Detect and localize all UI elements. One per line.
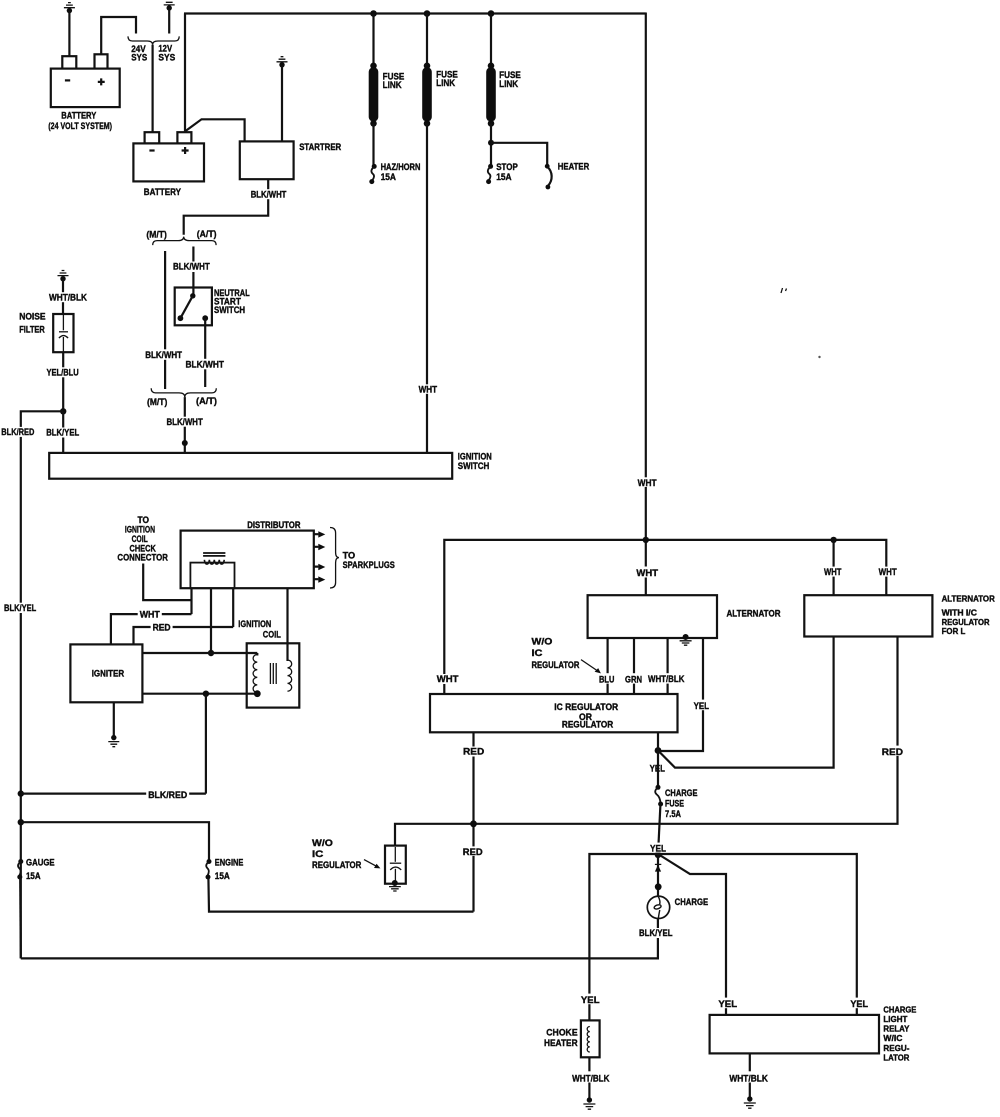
svg-text:ALTERNATOR: ALTERNATOR (942, 595, 995, 604)
svg-text:RELAY: RELAY (883, 1025, 910, 1034)
wire: branch to heater switch (491, 143, 547, 165)
fuse: HAZ/HORN 15A (369, 162, 420, 184)
svg-text:IGNITER: IGNITER (92, 668, 125, 679)
svg-text:(A/T): (A/T) (197, 229, 217, 240)
svg-text:(24 VOLT SYSTEM): (24 VOLT SYSTEM) (48, 121, 112, 132)
svg-text:IC: IC (532, 648, 543, 659)
switch: heater (545, 162, 590, 190)
svg-text:YEL: YEL (850, 999, 868, 1010)
svg-text:WHT: WHT (140, 610, 160, 621)
svg-text:WHT: WHT (879, 567, 897, 578)
arrows: distributor to spark plugs (314, 531, 326, 583)
svg-text:FILTER: FILTER (19, 325, 45, 336)
svg-text:IC: IC (312, 849, 324, 860)
svg-text:7.5A: 7.5A (665, 809, 681, 820)
svg-text:ENGINE: ENGINE (215, 858, 244, 869)
ground G3 (starter) (277, 57, 288, 68)
svg-text:COIL: COIL (263, 629, 281, 640)
svg-text:RED: RED (153, 622, 171, 633)
svg-text:SWITCH: SWITCH (458, 461, 490, 472)
label: WHT alternator 1 feed (634, 567, 659, 580)
noise filter (capacitor) (19, 312, 73, 353)
node: bus junction fuse link 3 (488, 10, 495, 17)
svg-text:BLK/WHT: BLK/WHT (167, 417, 203, 428)
fuse: GAUGE 15A (17, 858, 54, 883)
ground G9 (relay) (744, 1096, 756, 1108)
svg-text:NOISE: NOISE (19, 312, 45, 323)
wire: charge node to relay right input (658, 854, 870, 1015)
wire: gauge line to engine fuse branch (21, 822, 209, 860)
svg-text:RED: RED (463, 847, 483, 858)
node: bus2 junction alternator 1 (643, 537, 649, 543)
svg-text:(M/T): (M/T) (146, 229, 166, 240)
svg-text:15A: 15A (496, 172, 512, 183)
svg-text:DISTRIBUTOR: DISTRIBUTOR (247, 520, 300, 531)
wire: BLK/RED link (21, 789, 206, 801)
svg-text:HEATER: HEATER (544, 1038, 578, 1049)
wire: IC regulator RED output down (461, 732, 486, 911)
wire: FL2 WHT feed down to ignition switch (417, 123, 438, 453)
svg-text:RED: RED (463, 747, 484, 758)
label: W/O IC regulator (upper) with arrow (532, 637, 601, 674)
svg-text:BLK/WHT: BLK/WHT (251, 189, 287, 200)
wire: RED line to igniter (134, 622, 234, 645)
fusible link FL1 (369, 14, 405, 127)
label: W/O IC regulator (lower) with arrow (312, 838, 380, 871)
svg-text:W/IC: W/IC (883, 1034, 902, 1043)
wire: check connector to pickup lead (143, 564, 191, 601)
wire: choke heater WHT/BLK to ground (570, 1057, 611, 1099)
wire: pickup left lead down to WHT line (190, 588, 192, 614)
svg-text:STARTRER: STARTRER (299, 142, 341, 153)
svg-text:BLK/YEL: BLK/YEL (639, 928, 673, 939)
svg-text:REGULATOR: REGULATOR (942, 618, 990, 627)
svg-text:YEL: YEL (694, 701, 710, 712)
wire: starter output BLK/WHT down to upper brace (184, 179, 289, 234)
alternator 1 box (588, 595, 781, 638)
wire: FL1 to HAZ/HORN fuse (372, 123, 374, 165)
wire: distributor breaker down to coil wire (210, 588, 212, 653)
node: left bus gauge-line junction (18, 819, 24, 825)
svg-text:HEATER: HEATER (558, 162, 590, 173)
svg-text:WHT/BLK: WHT/BLK (572, 1074, 610, 1085)
fuse: charge fuse 7.5A (655, 785, 697, 820)
fuse: ENGINE 15A (206, 858, 244, 883)
wire: bottom bus to charge lamp (21, 916, 658, 958)
wire: alternator YEL output to charge junction (659, 638, 711, 751)
label: ignition coil (238, 619, 281, 640)
label: YEL at charge node (648, 843, 668, 855)
wire: WHT line to igniter (111, 610, 192, 646)
IC regulator box (430, 694, 678, 732)
node: coil primary - terminal (254, 690, 261, 697)
svg-text:CHARGE: CHARGE (883, 1005, 916, 1014)
wire: brace to 12V battery negative terminal (152, 45, 154, 133)
svg-text:SPARKPLUGS: SPARKPLUGS (343, 560, 395, 571)
brace: to sparkplugs (330, 528, 395, 589)
svg-text:LINK: LINK (436, 78, 455, 89)
igniter box (70, 644, 142, 702)
node: breaker/coil junction (208, 650, 214, 656)
wire: gauge fuse down left bus continues (19, 878, 22, 959)
svg-text:WHT: WHT (437, 674, 459, 685)
svg-text:(M/T): (M/T) (147, 397, 167, 408)
alternator 2 box (804, 595, 995, 637)
wire: alternator GRN stub (633, 638, 635, 695)
wire: B1 positive to 24V SYS brace (101, 17, 136, 55)
wire: M/T line down to lower brace (143, 251, 184, 389)
node: RED crossing junction (470, 820, 477, 827)
ground G8 (choke heater) (583, 1097, 595, 1109)
svg-text:SYS: SYS (131, 53, 147, 64)
label: YEL below junction (650, 764, 666, 775)
wire: igniter bottom output to coil primary - (142, 693, 257, 695)
distributor box (181, 520, 314, 588)
svg-text:W/O: W/O (532, 637, 553, 648)
svg-text:BLK/WHT: BLK/WHT (173, 262, 210, 273)
wire: IC regulator YEL output (657, 732, 659, 785)
node: dot above charge lamp (655, 883, 662, 890)
battery B1 (24 volt system) (48, 54, 119, 132)
svg-text:ALTERNATOR: ALTERNATOR (727, 609, 781, 620)
wire: lower brace BLK/WHT to ignition switch (165, 397, 205, 453)
svg-text:YEL: YEL (650, 764, 666, 775)
wire: top bus feed down to B2 positive (184, 14, 186, 132)
fuse: STOP 15A (486, 162, 518, 184)
wire: alternator 2 RED output to regulator line (395, 637, 904, 846)
ground G5 (igniter) (108, 735, 119, 747)
svg-text:WHT: WHT (636, 568, 658, 579)
svg-text:BLK/WHT: BLK/WHT (145, 350, 182, 361)
node: charge node (655, 852, 662, 859)
svg-text:YEL: YEL (718, 999, 737, 1010)
node: junction on bottom coil wire (203, 691, 209, 697)
svg-text:BLK/RED: BLK/RED (1, 427, 34, 438)
node: bus junction fuse link 2 (424, 10, 431, 17)
wire: BLK/YEL junction to ignition switch (44, 411, 81, 453)
neutral start switch (175, 288, 250, 326)
wire: relay WHT/BLK to ground (727, 1053, 770, 1098)
svg-text:BLK/RED: BLK/RED (148, 790, 187, 801)
svg-text:RED: RED (882, 747, 903, 758)
svg-text:FUSE: FUSE (665, 799, 684, 810)
label: to ignition coil check connector (117, 515, 168, 564)
fusible link FL3 (486, 14, 521, 127)
svg-text:WHT: WHT (824, 567, 842, 578)
svg-text:15A: 15A (26, 871, 41, 882)
arrow: charge lamp feed (655, 864, 661, 871)
svg-text:REGULATOR: REGULATOR (312, 860, 362, 871)
wire: alternator WHT/BLK stub (666, 638, 668, 695)
wire: charge node to choke heater (579, 854, 658, 1020)
ground G7 (capacitor) (389, 880, 401, 891)
brace: lower (M/T)/(A/T) (147, 388, 217, 408)
svg-text:YEL: YEL (581, 995, 600, 1006)
wire: noise filter YEL/BLU down to junction (45, 352, 81, 411)
wire: top supply bus (184, 12, 646, 14)
svg-text:LINK: LINK (499, 79, 518, 90)
wire: A/T line to neutral start switch (171, 247, 212, 289)
svg-text:WHT/BLK: WHT/BLK (648, 674, 685, 685)
svg-text:REGULATOR: REGULATOR (562, 719, 613, 730)
svg-text:SYS: SYS (158, 53, 175, 64)
svg-text:CHARGE: CHARGE (675, 897, 709, 908)
pickup coil (in distributor) (190, 553, 234, 588)
svg-text:BATTERY: BATTERY (61, 111, 97, 122)
svg-text:WHT: WHT (638, 478, 657, 489)
wire: branch from B2 positive to starter (185, 119, 245, 141)
wire: G2 down to brace (168, 9, 170, 34)
wire: WHT distribution bus (middle) (444, 540, 886, 696)
wire: G4 WHT/BLK to noise filter (47, 279, 89, 314)
svg-text:BLU: BLU (599, 675, 615, 686)
speck artifacts (781, 288, 821, 358)
svg-text:CHARGE: CHARGE (665, 788, 698, 799)
svg-text:SWITCH: SWITCH (214, 305, 245, 316)
wire: YEL link to alternator 2 (658, 637, 834, 768)
svg-text:LINK: LINK (383, 80, 402, 91)
svg-text:BLK/YEL: BLK/YEL (4, 603, 36, 614)
wire: engine fuse down and right to RED line (208, 878, 473, 912)
node: YEL junction under IC regulator (655, 747, 662, 754)
svg-text:GAUGE: GAUGE (26, 858, 55, 869)
label: WHT alternator 2 right input (877, 567, 899, 578)
wire: G1 to 24V battery negative terminal (68, 11, 70, 57)
wire: left BLK/RED bus down the page (0, 411, 63, 958)
ground G1 (24V battery) (64, 3, 75, 14)
svg-text:(A/T): (A/T) (196, 396, 217, 407)
svg-text:BLK/WHT: BLK/WHT (186, 360, 225, 371)
label: WHT left leg (435, 674, 461, 685)
node: BLK/RED / BLK/YEL junction (60, 408, 66, 414)
svg-text:WHT/BLK: WHT/BLK (49, 292, 87, 303)
wire: FL3 to STOP fuse (490, 123, 492, 165)
lamp: CHARGE indicator (647, 896, 708, 918)
svg-text:WITH I/C: WITH I/C (942, 609, 977, 618)
brace: 24V/12V SYS selector (128, 36, 179, 63)
ground G2 (12V system) (164, 2, 175, 10)
choke heater resistor (544, 1020, 600, 1057)
wire: top bus right end WHT down to lower bus (636, 13, 658, 597)
label: BLK/YEL under lamp (637, 928, 675, 939)
svg-text:FOR L: FOR L (942, 627, 966, 636)
svg-text:W/O: W/O (312, 838, 333, 849)
node: left bus BLK/RED junction (18, 790, 24, 796)
wire: G3 to starter (281, 65, 283, 141)
battery B2 (12V) (133, 132, 204, 198)
wire: neutral switch output down to lower brace (184, 318, 227, 387)
ignition coil box (247, 643, 300, 707)
wire: coil HT lead up to distributor (286, 588, 288, 661)
wire: igniter top output to coil primary + (142, 652, 257, 654)
ground G6 (alternator 1) (680, 634, 692, 645)
brace: upper (M/T)/(A/T) (146, 229, 216, 245)
svg-text:REGU-: REGU- (883, 1044, 909, 1053)
wire: igniter to ground (113, 702, 115, 737)
svg-text:WHT/BLK: WHT/BLK (729, 1074, 768, 1085)
svg-text:LIGHT: LIGHT (883, 1015, 907, 1024)
svg-text:GRN: GRN (625, 675, 642, 686)
fusible link FL2 (422, 14, 458, 127)
svg-text:YEL/BLU: YEL/BLU (47, 368, 79, 379)
wire: charge node diagonal to relay left input (658, 854, 739, 1015)
svg-text:BLK/YEL: BLK/YEL (46, 428, 79, 439)
svg-text:CONNECTOR: CONNECTOR (117, 553, 168, 564)
charge light relay box (710, 1005, 917, 1062)
node: bus2 junction alternator 2 (830, 537, 836, 543)
ignition switch box (49, 452, 492, 479)
node: STOP/HEATER branch junction (488, 140, 494, 146)
svg-text:WHT: WHT (419, 385, 438, 396)
ground G4 (noise filter) (58, 271, 69, 282)
wire: bus2 down to alternator 2 left input (822, 540, 844, 596)
svg-text:REGULATOR: REGULATOR (532, 660, 580, 671)
svg-text:BATTERY: BATTERY (144, 187, 182, 198)
node: bus junction fuse link 1 (370, 10, 377, 17)
wire: alternator BLU stub (606, 638, 608, 695)
capacitor (W/O IC regulator condenser) (385, 846, 406, 884)
svg-text:15A: 15A (381, 172, 397, 183)
svg-text:15A: 15A (215, 871, 230, 882)
starter box (240, 141, 342, 179)
svg-text:LATOR: LATOR (883, 1053, 909, 1062)
wire: coil junction down to BLK/RED line (205, 694, 207, 794)
wire: charge fuse down to charge node (658, 805, 660, 855)
wire: charge node down to lamp (657, 854, 659, 896)
wire: pickup right lead down to RED line (232, 588, 234, 627)
labels: BLU GRN WHT/BLK (597, 673, 687, 685)
